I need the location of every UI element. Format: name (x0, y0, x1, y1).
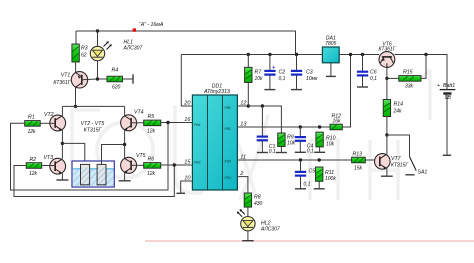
pin 11 wire (237, 159, 351, 161)
ground under VT3 (56, 179, 68, 181)
svg-text:КТ315Г: КТ315Г (84, 128, 103, 134)
node pin15 junction (173, 163, 176, 166)
regulator DA1 7805 (322, 36, 339, 63)
svg-text:0,1: 0,1 (269, 149, 276, 155)
svg-text:33k: 33k (405, 84, 414, 90)
svg-text:9В: 9В (445, 95, 452, 101)
svg-text:10: 10 (184, 175, 191, 181)
wire R13 to VT7 base (365, 159, 374, 161)
svg-text:12: 12 (240, 101, 247, 107)
svg-text:VT2: VT2 (44, 112, 54, 118)
svg-text:PB3: PB3 (194, 160, 201, 164)
node pin16 junction (166, 121, 169, 124)
svg-text:КТ361Г: КТ361Г (378, 47, 396, 53)
svg-text:R6: R6 (148, 157, 155, 163)
svg-text:PB1: PB1 (225, 127, 232, 131)
wire: R3 to VT1 emitter (75, 62, 77, 74)
resistor R6 (144, 157, 161, 177)
wire loop A (R1 left to pin16 node) (11, 123, 169, 191)
svg-text:15: 15 (184, 159, 191, 165)
svg-text:“А” - 16мА: “А” - 16мА (139, 22, 164, 28)
svg-text:62: 62 (81, 52, 87, 58)
transistor VT3 (44, 155, 66, 174)
svg-text:0,1: 0,1 (307, 149, 314, 155)
capacitor C2 (264, 55, 285, 90)
ground under C3 (291, 89, 302, 91)
transistor VT2 (44, 112, 66, 131)
ground under C5 (295, 188, 306, 190)
node VT6 base / R15 / R14 (385, 77, 388, 80)
svg-text:C2: C2 (279, 70, 286, 76)
svg-text:11: 11 (240, 154, 246, 160)
svg-text:VT7: VT7 (391, 156, 402, 162)
svg-text:0,1: 0,1 (304, 181, 311, 187)
svg-text:12k: 12k (147, 128, 156, 134)
capacitor C6 (357, 55, 377, 88)
label A current (133, 22, 164, 32)
svg-text:VT5: VT5 (136, 153, 146, 159)
wire: left branch down to R3 (75, 31, 77, 44)
svg-text:PB0: PB0 (225, 106, 232, 110)
watermark pink strike (145, 240, 474, 242)
wire R5 to IC pin16 (161, 122, 193, 124)
transistor VT6 (378, 41, 396, 67)
svg-text:16k: 16k (333, 119, 342, 125)
wire: top rail "A" (76, 31, 296, 55)
svg-text:100k: 100k (325, 176, 336, 182)
ground under C2 (264, 89, 275, 91)
node R12 riser rail (349, 53, 352, 56)
wire VT7 collector up (386, 135, 388, 155)
pin 20 wire and VCC riser (181, 55, 192, 107)
ground under R10 (314, 151, 325, 153)
svg-text:R7: R7 (255, 70, 263, 76)
node sensor branch right (123, 143, 126, 146)
node R10 at pin13 (318, 125, 321, 128)
op IC DD1 ATtiny2313 (192, 84, 237, 190)
capacitor C5 (295, 160, 315, 189)
resistor R12 (330, 113, 342, 130)
capacitor C3 (291, 55, 318, 90)
svg-text:+: + (437, 83, 440, 89)
svg-text:R14: R14 (394, 102, 404, 108)
watermark (70, 70, 430, 200)
node C5 at pin11 (299, 158, 302, 161)
svg-text:10k: 10k (326, 142, 335, 148)
node VT1 collector junction (74, 105, 77, 108)
transistor VT5 (121, 153, 146, 173)
pin 13 wire (237, 126, 330, 128)
IC pin names (194, 106, 231, 180)
svg-text:VT4: VT4 (134, 110, 144, 116)
ground under R9 (276, 152, 287, 154)
svg-text:PD0: PD0 (225, 176, 232, 180)
svg-text:20: 20 (183, 101, 191, 107)
resistor R13 (352, 151, 366, 171)
wire VT6 base down (386, 67, 388, 78)
transistor VT1 (53, 72, 97, 88)
node R7 rail (247, 53, 250, 56)
svg-text:12k: 12k (29, 171, 38, 177)
svg-text:R1: R1 (28, 115, 35, 121)
svg-text:R5: R5 (148, 114, 155, 120)
svg-text:R3: R3 (81, 46, 88, 52)
capacitor C4 (295, 127, 314, 155)
resistor R9 (278, 133, 296, 147)
wire R6 to IC pin15 (161, 164, 193, 166)
ground under C4 (295, 151, 306, 153)
pin 10 wire to ground (181, 181, 193, 193)
ground under VT5 (119, 180, 131, 182)
node R7 at pin12 (247, 104, 250, 107)
wire R11 to ground (318, 181, 320, 189)
wire R1 to VT2 base (40, 122, 50, 124)
sensor tank (72, 161, 114, 187)
svg-text:15k: 15k (354, 165, 363, 171)
svg-text:C3: C3 (306, 70, 313, 76)
wire R12 riser to 5V rail (342, 55, 350, 128)
svg-text:7805: 7805 (325, 41, 336, 47)
pin 12 wire (237, 106, 281, 133)
svg-text:R11: R11 (325, 170, 334, 176)
svg-text:24k: 24k (393, 108, 403, 114)
svg-text:R2: R2 (30, 157, 37, 163)
ground under C1 (257, 152, 268, 154)
svg-text:12k: 12k (147, 171, 156, 177)
LED HL2 (237, 207, 280, 241)
resistor R8 (244, 193, 262, 207)
resistor R2 (26, 157, 42, 177)
resistor R10 (316, 132, 336, 148)
node VT7 collector / R14 / SA1 (385, 133, 388, 136)
resistor R7 (245, 55, 263, 107)
rail DA1 to VT6 (339, 54, 379, 56)
resistor R3 (72, 44, 88, 62)
resistor R5 (144, 114, 161, 134)
ground under VT7 (381, 175, 393, 177)
svg-text:PD6: PD6 (225, 159, 232, 163)
ground (bar) right of R4 (132, 74, 134, 83)
svg-text:R15: R15 (403, 69, 413, 75)
svg-text:R9: R9 (287, 135, 294, 141)
svg-text:АЛС307: АЛС307 (260, 227, 280, 233)
5V rail (181, 54, 322, 56)
resistor R15 (387, 69, 421, 89)
ground under battery (443, 154, 451, 156)
wire R4 to ground bar (123, 78, 134, 80)
node: top-rail / HL1 junction (96, 29, 99, 32)
wire R15 riser to rail (421, 55, 426, 79)
wire to R4 (98, 78, 108, 80)
wire right electrode to VT4/VT5 node (102, 145, 125, 165)
wire: VT1 collector down (75, 88, 77, 107)
svg-text:C6: C6 (370, 70, 377, 76)
battery Batt1 (437, 83, 455, 155)
wire R2 to VT3 base (42, 165, 50, 167)
svg-text:+: + (272, 65, 275, 71)
LED HL1 (90, 31, 142, 79)
wire VT3 emitter to ground (61, 173, 63, 180)
resistor R1 (25, 115, 41, 135)
svg-text:430: 430 (254, 201, 263, 207)
wire VT7 emitter to ground (386, 168, 388, 176)
wire VT2 emitter / VT3 collector column (61, 130, 63, 159)
svg-text:R13: R13 (353, 151, 363, 157)
svg-text:13: 13 (240, 122, 247, 128)
ground under C6 (357, 86, 368, 88)
svg-text:КТ361Г: КТ361Г (53, 80, 71, 86)
svg-text:КТ315Г: КТ315Г (391, 162, 409, 168)
svg-text:PB4: PB4 (194, 123, 201, 127)
node: VT1 base / HL1 / R4 (96, 77, 99, 80)
svg-text:R4: R4 (112, 68, 119, 74)
ground under R11 (314, 188, 325, 190)
node C3 rail (295, 53, 298, 56)
node C6 rail (361, 53, 364, 56)
node R11 at pin11 (318, 158, 321, 161)
label VT2-VT5 (81, 121, 105, 134)
wire R9 to ground (280, 147, 282, 153)
transistor VT4 (121, 110, 144, 131)
svg-text:12k: 12k (28, 129, 37, 135)
wire VT4 emitter / VT5 collector column (124, 130, 126, 158)
rail VT6 to battery (395, 55, 447, 90)
node C1 at pin12 (261, 104, 264, 107)
svg-text:620: 620 (112, 85, 121, 91)
svg-text:C5: C5 (309, 169, 316, 175)
svg-text:10k: 10k (255, 76, 264, 82)
ground pin10 (177, 192, 186, 194)
svg-text:10мк: 10мк (306, 76, 318, 82)
wire R10 to ground (319, 147, 321, 152)
resistor R11 (316, 167, 337, 182)
node C2 rail (268, 53, 271, 56)
svg-text:VT2 - VT5: VT2 - VT5 (81, 121, 105, 127)
svg-text:SA1: SA1 (418, 169, 428, 175)
resistor R4 (107, 68, 123, 91)
svg-text:ATtiny2313: ATtiny2313 (203, 89, 230, 95)
node R15 riser rail (424, 53, 427, 56)
svg-text:Batt1: Batt1 (443, 83, 455, 89)
svg-text:R8: R8 (254, 194, 261, 200)
pin 2 wire (237, 177, 248, 193)
svg-text:VT1: VT1 (61, 72, 71, 78)
wire VT5 emitter to ground (124, 172, 126, 181)
svg-text:АЛС307: АЛС307 (123, 45, 143, 51)
svg-text:16: 16 (184, 117, 191, 123)
transistor VT7 (375, 154, 410, 170)
ground under HL2 (242, 240, 253, 242)
svg-text:0,1: 0,1 (370, 76, 377, 82)
svg-text:R10: R10 (326, 136, 336, 142)
wire to left electrode (62, 143, 84, 164)
svg-text:10k: 10k (287, 141, 296, 147)
svg-text:0,1: 0,1 (279, 76, 286, 82)
switch SA1 (387, 135, 428, 175)
resistor R14 (383, 78, 403, 135)
svg-text:VT3: VT3 (44, 155, 54, 161)
wire loop B (R2 left to pin15 node) (14, 165, 174, 197)
node sensor branch left (61, 142, 64, 145)
wire: VT2/VT4 collector bus (62, 105, 124, 107)
node C4 at pin13 (299, 125, 302, 128)
ground under DA1 (326, 63, 336, 77)
capacitor C1 (257, 106, 276, 155)
